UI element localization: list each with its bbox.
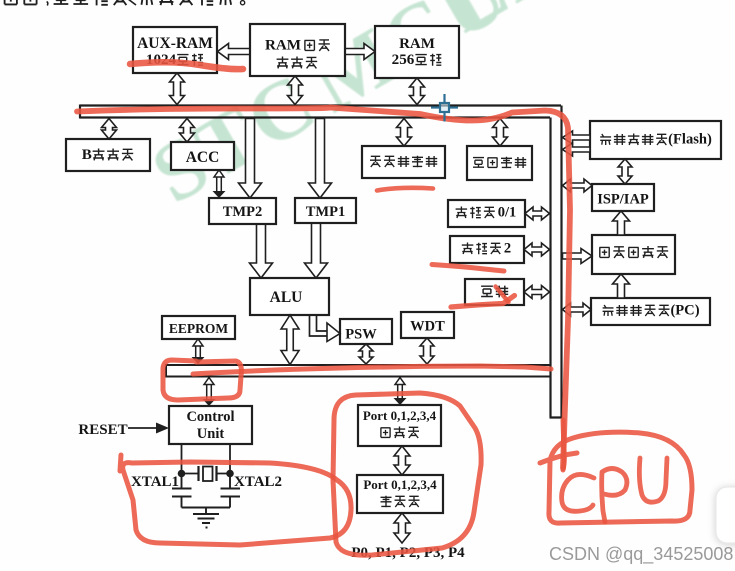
arrow AUX-RAM to bus bbox=[170, 73, 185, 105]
bus main horizontal bbox=[80, 105, 561, 119]
svg-text:ACC: ACC bbox=[186, 149, 220, 166]
red loop around port boxes bbox=[333, 393, 481, 555]
box dual data pointer bbox=[362, 146, 445, 178]
arrow driver to pins bbox=[394, 513, 410, 543]
svg-text:TMP2: TMP2 bbox=[223, 204, 262, 220]
label port pins bbox=[351, 545, 465, 561]
box serial port bbox=[465, 279, 524, 305]
label XTAL1 bbox=[131, 474, 179, 490]
arrow lower-bus to port latch bbox=[394, 378, 407, 406]
box port driver bbox=[357, 475, 443, 513]
box PSW bbox=[340, 319, 392, 344]
box ALU bbox=[250, 278, 329, 315]
svg-text:2: 2 bbox=[504, 241, 511, 257]
arrow timer2 to vbus bbox=[524, 243, 550, 256]
box EEPROM bbox=[162, 316, 235, 339]
arrow lower-bus to control unit bbox=[203, 378, 216, 407]
svg-text:(PC): (PC) bbox=[670, 303, 699, 319]
box program flash bbox=[590, 121, 721, 159]
arrow timer01 to vbus bbox=[525, 207, 550, 220]
arrow RESET to control unit bbox=[128, 423, 169, 434]
svg-text:XTAL2: XTAL2 bbox=[234, 474, 282, 490]
arrow ALU to PSW elbow bbox=[310, 315, 341, 342]
red CPU blob bbox=[540, 420, 692, 523]
svg-text:PSW: PSW bbox=[345, 327, 377, 343]
red underline dual-DPTR bbox=[377, 188, 433, 191]
svg-text:RAM: RAM bbox=[265, 38, 301, 54]
svg-text:(Flash): (Flash) bbox=[668, 132, 712, 148]
svg-text:Unit: Unit bbox=[197, 426, 225, 442]
arrow bus to TMP1 bbox=[309, 119, 332, 199]
red stroke over main bus bbox=[77, 108, 570, 469]
label RESET bbox=[78, 422, 127, 438]
svg-text:WDT: WDT bbox=[410, 319, 445, 335]
arrow vbus to flash upper bbox=[563, 131, 591, 144]
label XTAL2 bbox=[234, 474, 282, 490]
box TMP2 bbox=[209, 198, 276, 224]
svg-text:256: 256 bbox=[392, 52, 415, 68]
bus lower horizontal bbox=[166, 364, 550, 378]
red underline serial bbox=[451, 287, 515, 308]
arrow EEPROM to lower bus bbox=[192, 339, 205, 364]
capacitor C1 bbox=[172, 474, 192, 508]
node XTAL2 junction bbox=[226, 470, 234, 478]
box TMP1 bbox=[295, 198, 356, 223]
arrow vbus to ISP bbox=[563, 179, 593, 192]
arrow bus to B-register bbox=[102, 119, 117, 140]
svg-text:XTAL1: XTAL1 bbox=[131, 474, 179, 490]
arrow bus to ACC bbox=[180, 119, 195, 143]
svg-text:0/1: 0/1 bbox=[498, 205, 517, 221]
red strikethrough 1024 bbox=[130, 62, 243, 69]
arrow vbus to addrgen bbox=[563, 249, 593, 264]
box AUX-RAM bbox=[133, 27, 217, 73]
svg-text:EEPROM: EEPROM bbox=[169, 321, 229, 336]
svg-text:ALU: ALU bbox=[270, 289, 303, 306]
box B register bbox=[66, 139, 150, 171]
svg-text:Port 0,1,2,3,4: Port 0,1,2,3,4 bbox=[363, 408, 437, 423]
arrow TMP1 to ALU bbox=[305, 223, 328, 278]
arrow RAM-addr-reg to bus bbox=[288, 76, 303, 105]
svg-text:AUX-RAM: AUX-RAM bbox=[137, 35, 213, 52]
arrow bus to dual-DPTR bbox=[397, 119, 412, 147]
arrow TMP2 to ALU bbox=[250, 224, 273, 278]
svg-text:Control: Control bbox=[186, 409, 234, 425]
box stack pointer bbox=[467, 146, 532, 180]
box RAM address register bbox=[250, 24, 345, 76]
arrow addrgen to ISP bbox=[613, 211, 630, 235]
svg-text:RAM: RAM bbox=[399, 36, 435, 52]
arrow RAM-addr-reg to RAM256 bbox=[345, 44, 375, 60]
box address generator bbox=[592, 235, 675, 274]
arrow RAM-addr-reg to AUX-RAM bbox=[218, 44, 251, 60]
node XTAL1 junction bbox=[178, 470, 186, 478]
floating button bbox=[716, 487, 735, 543]
clipped heading text bbox=[4, 0, 245, 6]
arrow flash to ISP bbox=[618, 159, 632, 184]
wire control-unit to XTAL2 bbox=[229, 444, 231, 473]
bus vertical right bbox=[550, 106, 563, 418]
wire control-unit to XTAL1 bbox=[181, 444, 183, 473]
box WDT bbox=[401, 312, 454, 338]
red loop at lower bus left bbox=[163, 360, 241, 400]
red underline timer2 bbox=[432, 265, 504, 272]
CSDN watermark bbox=[549, 544, 733, 565]
arrow latch to driver bbox=[394, 446, 410, 475]
red loop around crystal bbox=[120, 455, 351, 545]
arrow vbus to PC bbox=[563, 303, 592, 316]
box ISP IAP bbox=[592, 184, 654, 211]
svg-text:ISP/IAP: ISP/IAP bbox=[597, 192, 649, 208]
svg-text:RESET: RESET bbox=[78, 422, 127, 438]
red stroke over lower bus bbox=[193, 366, 551, 374]
arrow WDT to lower bus bbox=[420, 338, 434, 364]
svg-text:Port 0,1,2,3,4: Port 0,1,2,3,4 bbox=[363, 477, 437, 492]
box program counter PC bbox=[591, 298, 710, 325]
box RAM 256 bbox=[375, 26, 459, 78]
arrow PC to addrgen bbox=[613, 274, 630, 298]
arrow ALU to lower bus bbox=[281, 315, 299, 365]
box ACC bbox=[171, 142, 234, 170]
red CPU letters bbox=[562, 458, 667, 522]
box Control Unit bbox=[169, 406, 252, 444]
arrow serial to vbus bbox=[524, 286, 550, 299]
box timer01 bbox=[448, 200, 525, 227]
arrow bus to TMP2 bbox=[239, 119, 262, 199]
svg-text:TMP1: TMP1 bbox=[306, 204, 345, 220]
arrow RAM256 to bus bbox=[410, 78, 425, 105]
box port latch bbox=[358, 405, 441, 446]
svg-text:CSDN @qq_34525008: CSDN @qq_34525008 bbox=[549, 544, 733, 565]
crystal Y1 bbox=[182, 466, 231, 481]
box timer2 bbox=[450, 236, 524, 263]
arrow PSW to lower bus bbox=[359, 344, 373, 364]
arrow vbus to flash lower bbox=[563, 143, 591, 156]
arrow ACC to TMP2 bbox=[213, 170, 226, 198]
capacitor C2 bbox=[221, 474, 241, 508]
watermark STC MCU Limited bbox=[137, 0, 735, 221]
wire cap bottoms bbox=[182, 508, 231, 515]
ground symbol bbox=[193, 514, 219, 528]
cursor crosshair bbox=[431, 94, 458, 122]
svg-text:B: B bbox=[82, 147, 92, 163]
arrow bus to stack-pointer bbox=[493, 119, 508, 147]
